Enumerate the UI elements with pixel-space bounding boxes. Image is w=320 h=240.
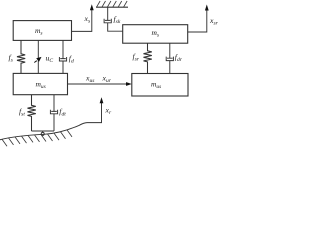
damper fd (suspension damper, left) <box>59 40 66 73</box>
horizontal arrow shaft xus -> xur <box>68 83 127 85</box>
wire xsr (from right ms box up) <box>188 10 207 32</box>
road surface curve <box>0 123 102 140</box>
tire damper fdt (left) <box>50 95 57 131</box>
mass box mus (right unsprung, reference model) <box>132 74 188 97</box>
mass box ms (left sprung mass) <box>13 21 71 41</box>
arrowhead xus->xur <box>126 82 132 86</box>
ceiling hatching <box>97 1 128 7</box>
spring fs (suspension spring, left) <box>17 40 25 73</box>
spring fsr (reference suspension spring) <box>144 43 152 73</box>
xr arrow shaft <box>101 103 103 123</box>
wire xs (from ms box right edge up) <box>72 10 92 32</box>
road hatching <box>2 130 72 146</box>
arrowhead xs <box>90 4 94 10</box>
tire spring fst (left) <box>28 95 36 131</box>
skyhook damper fsk <box>104 7 123 31</box>
actuator uC arrow symbol <box>34 61 37 63</box>
arrowhead xsr <box>205 5 209 11</box>
mass box ms (right sprung, reference model) <box>123 25 188 44</box>
actuator uC rod <box>37 40 39 73</box>
wheel contact circle <box>41 132 44 135</box>
damper fdr (reference suspension damper) <box>166 43 173 73</box>
ceiling line (fixed reference, right) <box>96 6 128 8</box>
bottom U wire joining tire spring and damper <box>32 131 55 132</box>
arrowhead xr <box>100 97 104 103</box>
mass box mus (left unsprung mass) <box>13 73 67 94</box>
